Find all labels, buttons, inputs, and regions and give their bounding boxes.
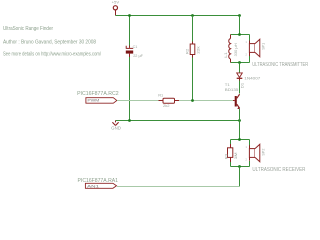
- ground GND symbol: [111, 121, 121, 131]
- svg-text:GND: GND: [111, 125, 121, 130]
- node junction rail corner: [238, 14, 241, 17]
- power +5V symbol P1: [112, 0, 120, 16]
- svg-text:SP1: SP1: [261, 42, 266, 50]
- svg-text:2k2: 2k2: [163, 103, 170, 108]
- capacitor C1: [126, 44, 144, 58]
- svg-text:330 µH: 330 µH: [233, 43, 238, 56]
- svg-text:Author : Bruno Gavand, Septemb: Author : Bruno Gavand, September 30 2008: [3, 39, 96, 45]
- wire C1 top vertical: [129, 16, 131, 46]
- svg-text:22k: 22k: [195, 46, 200, 54]
- wire C1 bottom vertical: [129, 57, 131, 121]
- svg-text:22 µF: 22 µF: [133, 53, 143, 58]
- wire receiver bottom bar: [231, 166, 250, 168]
- svg-text:ULTRASONIC RECEIVER: ULTRASONIC RECEIVER: [252, 167, 305, 173]
- node junction rail-C1: [128, 14, 131, 17]
- svg-text:R3: R3: [223, 153, 228, 159]
- tag RA1: [85, 183, 116, 188]
- wire transmitter tap vertical: [239, 16, 241, 35]
- node junction base-R2: [191, 99, 194, 102]
- svg-text:UltraSonic Range Finder: UltraSonic Range Finder: [3, 26, 53, 32]
- wire receiver top bar: [231, 139, 250, 141]
- resistor R2: [185, 42, 201, 58]
- wire RC2 to transistor base: [117, 100, 233, 102]
- svg-text:PIC16F877A.RC2: PIC16F877A.RC2: [77, 91, 119, 97]
- node junction gndrail-emitter: [238, 119, 241, 122]
- node junction rail-R2: [191, 14, 194, 17]
- wire R2 top vertical: [192, 16, 194, 42]
- svg-text:ULTRASONIC TRANSMITTER: ULTRASONIC TRANSMITTER: [252, 62, 308, 68]
- wire bottom horizontal to tag: [117, 186, 240, 188]
- tag RC2: [86, 98, 117, 104]
- svg-text:1M: 1M: [233, 152, 238, 159]
- svg-text:PWM: PWM: [87, 99, 100, 103]
- resistor R3: [223, 140, 238, 167]
- node junction receiver bottom: [238, 165, 241, 168]
- svg-text:BD135: BD135: [225, 87, 239, 92]
- node junction topbar: [238, 33, 241, 36]
- wire transmitter top bar: [231, 34, 250, 36]
- node junction gndrail-C1: [128, 119, 131, 122]
- wire receiver bottom to RA1: [239, 167, 241, 187]
- node junction receiver top: [238, 138, 241, 141]
- node junction bottombar: [238, 61, 241, 64]
- svg-text:R2: R2: [185, 48, 190, 54]
- svg-text:AN1: AN1: [87, 184, 99, 188]
- wire GND rail: [116, 120, 240, 122]
- svg-text:+5V: +5V: [112, 0, 120, 4]
- svg-text:1N4007: 1N4007: [244, 76, 261, 81]
- wire bottombar to diode: [239, 63, 241, 73]
- inductor L1: [223, 35, 238, 63]
- svg-text:See more details on http://www: See more details on http://www.micro-exa…: [3, 52, 102, 58]
- speaker SP1 ultrasonic transmitter: [245, 35, 265, 63]
- diode D1: [237, 73, 261, 89]
- wire transmitter bottom bar: [231, 62, 250, 64]
- speaker SP2 ultrasonic receiver: [245, 140, 265, 167]
- svg-text:C1: C1: [133, 44, 139, 49]
- svg-text:D1: D1: [239, 82, 244, 88]
- wire emitter down through gnd rail to receiver: [239, 109, 241, 140]
- svg-text:SP2: SP2: [261, 148, 266, 156]
- wire +5V rail top: [116, 15, 240, 17]
- wire R2 bottom vertical: [192, 58, 194, 101]
- resistor R1: [158, 93, 179, 108]
- svg-text:R1: R1: [158, 93, 164, 98]
- transistor T1 BD135: [225, 82, 240, 109]
- wire diode to collector: [239, 81, 241, 94]
- svg-text:L1: L1: [223, 51, 228, 57]
